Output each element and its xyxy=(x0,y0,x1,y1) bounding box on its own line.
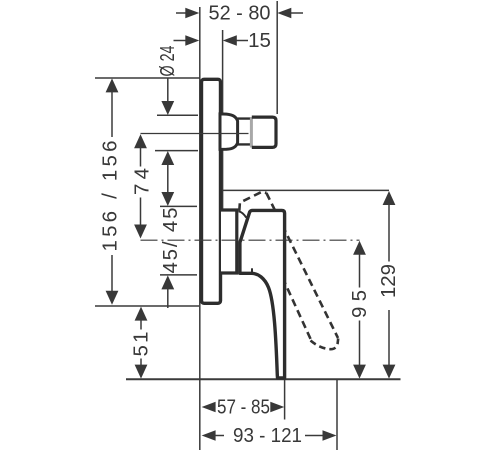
dimension 93-121 xyxy=(202,424,337,447)
svg-text:Ø 24: Ø 24 xyxy=(156,46,179,77)
dimension 45/45 double arrow xyxy=(159,151,182,308)
wire: 45/45 upper reference line y=206.5 xyxy=(160,205,197,207)
handle body with lever down xyxy=(240,210,285,378)
svg-text:93 - 121: 93 - 121 xyxy=(233,424,302,447)
wire: open-lever extension line x=337 xyxy=(336,380,338,450)
valve housing block xyxy=(221,210,237,273)
cartridge cap wedge line xyxy=(239,211,247,217)
dimension 57-85 xyxy=(202,396,285,419)
svg-text:156 / 156: 156 / 156 xyxy=(99,141,122,252)
svg-text:129: 129 xyxy=(377,264,400,298)
wire: wall extension line xyxy=(199,7,201,450)
wire: diameter-24 bottom reference line y=150.5 xyxy=(155,150,198,152)
wire: 45/45 lower reference line y=275 xyxy=(160,274,197,276)
wire: diameter-24 top reference line y=115 xyxy=(157,114,198,116)
lever parting tick xyxy=(251,268,253,273)
wire: 129 top reference line y=190.5 xyxy=(221,189,389,191)
dimension 95 xyxy=(348,241,371,379)
dimension 15 xyxy=(174,29,271,52)
wire: plate-front extension line x=222.5 xyxy=(222,30,224,209)
lever open position (dashed) xyxy=(239,192,338,350)
dimension diameter 24 xyxy=(156,46,179,116)
spout neck xyxy=(238,119,252,145)
center line: valve axis y=240 (dash-dot) xyxy=(141,239,360,241)
wire: 156 bottom / 51 top reference line y=306 xyxy=(95,305,199,307)
wire: floor reference line y=379.3 xyxy=(126,378,401,380)
svg-text:52 - 80: 52 - 80 xyxy=(209,2,271,25)
dimension 156/156 xyxy=(99,78,122,304)
spout base dome xyxy=(220,114,238,149)
wall plate (escutcheon) xyxy=(202,79,221,303)
center line: spout axis y=133.5 xyxy=(141,133,249,135)
svg-text:57 - 85: 57 - 85 xyxy=(217,396,270,419)
dimension 74 xyxy=(131,134,154,238)
dimension 129 xyxy=(377,191,400,379)
wire: handle-front extension line below x=284.5 xyxy=(284,380,286,420)
dimension 52-80 xyxy=(176,2,303,25)
dimension 51 xyxy=(130,307,153,379)
wire: 156 top reference line y=78 xyxy=(95,77,200,79)
svg-text:15: 15 xyxy=(248,29,271,52)
wire: spout-end extension line x=277 xyxy=(276,1,278,114)
spout end connector xyxy=(252,117,276,147)
